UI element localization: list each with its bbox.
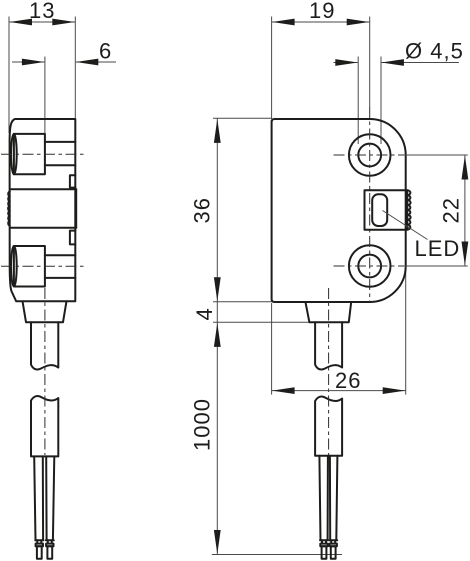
svg-text:13: 13 — [29, 0, 55, 23]
svg-text:36: 36 — [190, 197, 215, 223]
svg-text:19: 19 — [309, 0, 335, 23]
svg-text:26: 26 — [335, 368, 361, 393]
svg-text:22: 22 — [439, 197, 464, 223]
svg-text:LED: LED — [415, 236, 461, 261]
svg-text:4: 4 — [192, 307, 217, 320]
svg-text:Ø 4,5: Ø 4,5 — [405, 39, 464, 64]
svg-text:1000: 1000 — [190, 398, 215, 451]
svg-text:6: 6 — [99, 39, 112, 64]
